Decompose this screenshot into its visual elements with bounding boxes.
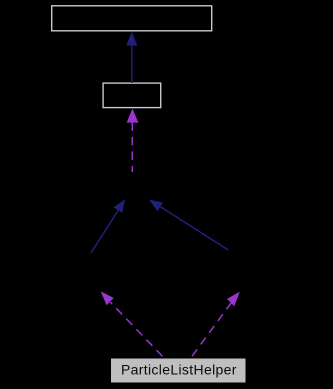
svg-text:ParticleListHelper: ParticleListHelper [121, 362, 237, 378]
arrowhead: right node -> middle node [149, 199, 163, 211]
arrowhead: usage arrow middle node -> box2 [127, 109, 139, 123]
node: intermediate class box (second, text invisible on black) [103, 83, 161, 108]
edge: inheritance arrow right invisible node -> middle node (midnight blue solid) [160, 207, 228, 251]
edge: inheritance arrow left invisible node -> middle node (midnight blue solid) [91, 210, 119, 254]
edge: usage arrow middle invisible node -> box2 (dark orchid dashed) [131, 122, 133, 172]
arrowhead: ParticleListHelper -> left node [101, 291, 114, 305]
node: base class box (top, text invisible on black) [52, 6, 212, 31]
edge: inheritance arrow box2 -> box1 (midnight blue solid) [131, 44, 133, 83]
arrowhead: left node -> middle node [114, 199, 126, 213]
node: ParticleListHelper (current class, grey filled) [111, 359, 246, 383]
edge: usage arrow ParticleListHelper -> left invisible node (dark orchid dashed) [110, 302, 165, 359]
arrowhead: ParticleListHelper -> right node [227, 292, 240, 307]
edge: usage arrow ParticleListHelper -> right invisible node (dark orchid dashed) [190, 303, 231, 360]
arrowhead: inheritance arrow box2 -> box1 [126, 32, 137, 46]
